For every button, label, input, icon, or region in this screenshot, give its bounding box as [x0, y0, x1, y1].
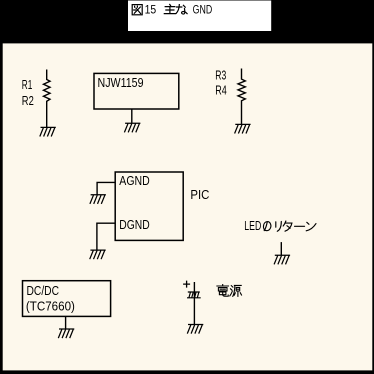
title text 図15 主なGND	[132, 4, 187, 14]
wire (LED return)	[280, 242, 282, 255]
title box	[128, 1, 271, 32]
svg-text:LED: LED	[244, 219, 261, 233]
ground (R3/R4)	[235, 124, 251, 133]
battery/ground symbol (power)	[187, 292, 201, 298]
svg-text:AGND: AGND	[119, 174, 149, 188]
wire (NJW1159 to ground)	[131, 109, 133, 123]
svg-text:R1: R1	[22, 78, 33, 92]
kanji 主	[164, 4, 175, 13]
resistor R1/R2	[44, 70, 51, 128]
svg-text:15: 15	[145, 5, 157, 17]
IC box DC/DC	[23, 281, 111, 317]
ground (DGND)	[90, 250, 106, 259]
kanji 図	[132, 5, 142, 15]
svg-text:NJW1159: NJW1159	[98, 76, 144, 90]
wire (AGND pin)	[97, 182, 115, 194]
wire (DGND pin)	[97, 223, 115, 250]
svg-text:DGND: DGND	[119, 218, 149, 232]
IC box PIC	[115, 172, 183, 240]
kana な	[176, 5, 187, 14]
resistor R3/R4	[238, 69, 245, 125]
ground (power)	[187, 325, 203, 334]
ground (LED return)	[274, 255, 290, 264]
svg-text:(TC7660): (TC7660)	[26, 299, 75, 313]
ground (R1/R2)	[40, 127, 56, 136]
kanji 電源	[217, 285, 242, 297]
svg-text:DC/DC: DC/DC	[27, 284, 60, 298]
ground (DC/DC)	[58, 329, 74, 338]
ground (AGND)	[90, 195, 106, 204]
kana のリターン	[263, 221, 316, 231]
IC box NJW1159	[94, 73, 179, 109]
svg-text:GND: GND	[193, 5, 213, 17]
svg-text:R4: R4	[215, 84, 227, 98]
wire (DC/DC to ground)	[65, 316, 67, 328]
plus sign (power)	[183, 281, 190, 288]
svg-text:PIC: PIC	[190, 188, 209, 202]
svg-text:R3: R3	[215, 69, 226, 83]
wire (power)	[193, 282, 195, 324]
ground (NJW1159)	[124, 123, 140, 132]
svg-text:R2: R2	[22, 94, 34, 108]
